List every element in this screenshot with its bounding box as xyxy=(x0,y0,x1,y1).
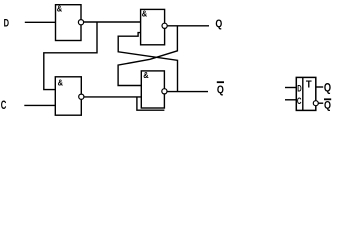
svg-text:&: & xyxy=(58,79,64,88)
NAND gate G4 (bottom-right) xyxy=(141,71,164,108)
wire G2 output to G4 lower input xyxy=(84,96,141,98)
NAND gate G2 (bottom-left) xyxy=(55,77,81,115)
svg-text:T: T xyxy=(306,79,312,91)
svg-text:Q: Q xyxy=(324,100,331,112)
wire branch under G4 xyxy=(137,97,165,110)
wire block Qbar output xyxy=(318,102,323,104)
wire D input xyxy=(25,21,56,23)
wire Q output line xyxy=(167,25,209,27)
wire cross feedback Qbar to G3 lower input xyxy=(118,33,177,92)
wire cross feedback Q to G4 upper input xyxy=(118,26,177,86)
svg-text:&: & xyxy=(57,4,63,13)
wire G1 output to G3 input xyxy=(84,21,141,23)
wire block input D xyxy=(285,87,296,89)
svg-text:Q: Q xyxy=(217,84,224,96)
wire feedback G1 out down to G2 input xyxy=(44,22,97,90)
wire block input C xyxy=(285,99,296,101)
wire C input xyxy=(24,104,55,106)
svg-text:C: C xyxy=(297,96,302,106)
svg-text:C: C xyxy=(1,100,7,112)
NAND gate G1 (top-left) xyxy=(56,4,82,40)
wire Qbar output line xyxy=(167,91,208,93)
block Qbar bubble xyxy=(313,101,318,106)
svg-text:Q: Q xyxy=(215,18,222,30)
G1 output bubble xyxy=(78,20,83,25)
svg-text:&: & xyxy=(142,10,148,19)
G3 output bubble xyxy=(162,23,167,28)
svg-text:D: D xyxy=(297,83,302,93)
divider xyxy=(302,77,304,110)
svg-text:D: D xyxy=(4,18,9,30)
node Qbar label (block) xyxy=(324,99,331,111)
node Qbar label xyxy=(217,82,224,96)
svg-text:&: & xyxy=(143,71,149,80)
block outline xyxy=(296,77,316,110)
G4 output bubble xyxy=(162,89,167,94)
NAND gate G3 (top-right) xyxy=(141,9,165,44)
svg-text:Q: Q xyxy=(324,81,331,95)
D flip-flop block symbol U1 xyxy=(296,77,316,110)
wire block Q output xyxy=(316,86,323,88)
G2 output bubble xyxy=(79,94,84,99)
